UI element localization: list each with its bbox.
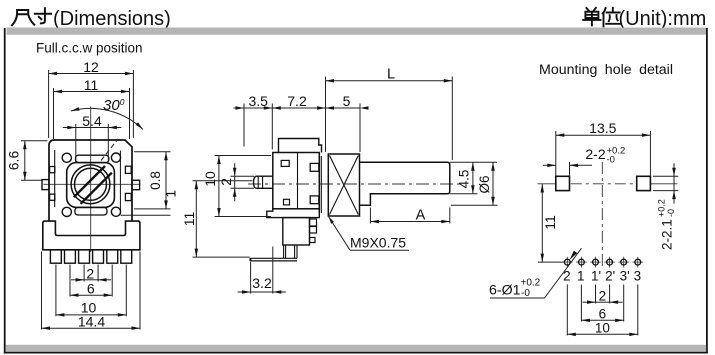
side mounting plate: [318, 156, 320, 213]
dim 11 side text: [181, 212, 197, 227]
front pins 1-6: [50, 250, 61, 263]
dim 13.5: [556, 134, 651, 136]
front corner hole bottom-left: [62, 207, 71, 216]
label 6-dia1 leader: [545, 248, 582, 298]
svg-text:2-2.1: 2-2.1: [660, 219, 675, 250]
side body: [273, 153, 320, 209]
dim 5.4: [63, 127, 76, 129]
side pilot shaft: [254, 176, 273, 188]
dim 11 mh: [541, 184, 543, 262]
front left mounting lug: [42, 180, 49, 190]
dim 2-2 arrows: [543, 164, 556, 166]
svg-text:M9X0.75: M9X0.75: [350, 235, 406, 251]
dim 2 side: [234, 163, 236, 176]
side clip plate upper: [310, 163, 319, 171]
dim 6 mh: [581, 319, 623, 321]
dim 30deg arc: [71, 108, 143, 129]
svg-text:14.4: 14.4: [78, 314, 105, 330]
svg-text:300: 300: [103, 97, 125, 114]
svg-text:11: 11: [181, 212, 197, 227]
mh square hole left: [556, 176, 570, 190]
dim 12 ext lines: [48, 70, 50, 138]
svg-text:7.2: 7.2: [287, 93, 307, 109]
side top tab: [279, 139, 322, 153]
frame right border: [706, 28, 708, 354]
dim 30deg radial mark: [101, 139, 118, 161]
front knob slot line 1: [74, 166, 105, 197]
svg-text:Full.c.c.w position: Full.c.c.w position: [36, 41, 143, 56]
dim 7.2 arrows: [264, 106, 273, 110]
svg-text:2-2: 2-2: [585, 146, 605, 162]
dim 3.2 ext lines: [250, 262, 252, 294]
svg-text:2: 2: [218, 178, 234, 186]
dim 2 (pins): [71, 279, 84, 281]
dim 0.8: [165, 152, 167, 209]
side lower block: [283, 218, 310, 245]
mh center horizontal line: [538, 183, 556, 185]
svg-text:12: 12: [83, 59, 99, 75]
side threaded bushing: [328, 154, 359, 216]
front collar bottom bar: [75, 207, 107, 215]
dim dia6 ext line: [451, 204, 498, 206]
dim 6.6 text: [6, 151, 22, 171]
dim 10 side ext lines: [215, 155, 272, 157]
dim 6.6 ext lines: [21, 140, 48, 142]
dim 10 side text: [202, 171, 218, 187]
side bushing cross: [330, 156, 359, 215]
side lower block detail b: [310, 227, 317, 234]
svg-text:L: L: [387, 67, 395, 83]
svg-text:6.6: 6.6: [6, 151, 22, 171]
svg-text:1: 1: [164, 190, 179, 198]
mh center vertical line: [601, 162, 603, 266]
svg-text:-0: -0: [666, 209, 676, 217]
dim 3.5/7.2/5 line: [236, 107, 360, 109]
svg-text:11: 11: [542, 215, 558, 230]
dim 11 side: [195, 181, 197, 257]
mh bottom dim ext lines: [595, 285, 597, 304]
front corner hole top-left: [62, 153, 71, 162]
front knob outer circle: [71, 165, 110, 204]
dim 4.5 ext lines: [450, 161, 497, 163]
frame bottom gray bar: [6, 345, 707, 352]
side top dim ext lines: [243, 104, 245, 147]
dim 2 side text: [218, 178, 234, 186]
svg-text:2: 2: [599, 289, 607, 304]
front corner hole bottom-right: [111, 207, 120, 216]
frame bottom border: [4, 352, 708, 354]
dim 3.2: [238, 291, 251, 293]
svg-text:13.5: 13.5: [589, 120, 616, 136]
svg-text:6: 6: [87, 281, 95, 297]
svg-text:Mounting hole detail: Mounting hole detail: [539, 62, 673, 78]
svg-text:6-Ø1: 6-Ø1: [489, 283, 521, 299]
dim 12: [49, 73, 134, 75]
front body clip right upper: [125, 166, 131, 173]
side bracket leg: [294, 245, 296, 258]
front body outline: [49, 140, 132, 221]
front body inner line right: [119, 151, 121, 215]
svg-text:10: 10: [595, 321, 610, 336]
dim 0.8 text: [148, 171, 163, 190]
dim 2-2.1 ext lines: [653, 175, 678, 177]
dim 2-2 ext line: [569, 162, 571, 176]
dim dia6 text: [477, 175, 492, 193]
dim 5.4 ext lines: [75, 124, 77, 162]
dim 0.8/1 ext lines: [134, 151, 171, 153]
side shaft: [360, 162, 450, 205]
dim 2 side ext lines: [231, 175, 255, 177]
frame left border: [4, 28, 6, 354]
dim dia6: [492, 162, 494, 205]
front knob inner circle: [75, 168, 107, 200]
dim 11: [54, 91, 130, 93]
front flange: [43, 221, 140, 250]
svg-text:3.2: 3.2: [252, 275, 272, 291]
front collar square: [67, 163, 115, 208]
mh square hole right: [637, 176, 651, 190]
svg-text:(Unit):mm: (Unit):mm: [619, 8, 707, 30]
dim 14.4: [42, 327, 141, 329]
dim 11 ext lines: [53, 88, 55, 139]
svg-text:-0: -0: [521, 288, 530, 299]
svg-text:2: 2: [86, 265, 94, 281]
dim 11 side ext lines: [193, 180, 253, 182]
side base flange: [267, 209, 320, 218]
dim 2-2.1 text: [657, 199, 677, 250]
svg-text:+0.2: +0.2: [521, 278, 541, 289]
label 6-dia1 underline: [490, 297, 545, 299]
side lower block detail c: [310, 238, 316, 243]
dim 13.5 ext lines: [555, 131, 557, 176]
front corner hole top-right: [111, 153, 120, 162]
label M9X0.75 underline: [350, 249, 409, 251]
dim A ext lines: [369, 208, 371, 224]
dim L: [326, 80, 453, 82]
dim 10 side: [218, 156, 220, 217]
svg-text:Ø6: Ø6: [477, 175, 492, 193]
side clip plate lower: [310, 196, 319, 204]
svg-text:(Dimensions): (Dimensions): [53, 8, 171, 30]
front view horizontal centerline: [44, 183, 141, 185]
svg-text:6: 6: [599, 307, 607, 322]
svg-text:+0.2: +0.2: [657, 199, 667, 217]
svg-text:-0: -0: [607, 155, 615, 166]
side lower block detail a: [310, 219, 317, 226]
svg-text:3.5: 3.5: [248, 93, 268, 109]
front view vertical centerline: [90, 107, 92, 253]
dim 10 (pins): [56, 314, 126, 316]
svg-text:11: 11: [84, 77, 99, 93]
title CJK 单位: [583, 8, 620, 27]
dim 4.5: [472, 162, 474, 194]
dim 2 mh: [583, 301, 596, 303]
svg-text:3: 3: [634, 269, 642, 284]
svg-text:3': 3': [620, 269, 630, 284]
dim L ext line: [451, 77, 453, 161]
title CJK 尺寸: [12, 8, 51, 25]
dim 6.6: [24, 141, 26, 181]
dim 3.5 arrows: [236, 106, 245, 110]
svg-text:0.8: 0.8: [148, 171, 163, 190]
svg-text:10: 10: [202, 171, 218, 187]
side pilot cap lines: [257, 176, 259, 188]
side pin edge: [283, 245, 285, 258]
dim A: [370, 221, 449, 223]
front collar top bar: [76, 155, 109, 162]
svg-text:5.4: 5.4: [82, 113, 102, 129]
dim 30deg arc arrow left: [71, 107, 80, 111]
dim 11 mh text: [542, 215, 558, 230]
front body clip left lower: [50, 194, 55, 200]
dim 5 arrows: [317, 106, 326, 110]
side body inner line: [297, 153, 299, 209]
svg-text:A: A: [416, 208, 426, 224]
svg-text:1: 1: [577, 269, 585, 284]
svg-text:2': 2': [605, 269, 615, 284]
side body bump upper: [281, 160, 289, 166]
frame top gray bar: [7, 28, 708, 35]
svg-text:5: 5: [343, 93, 351, 109]
dim 10 mh: [567, 333, 638, 335]
dim 2-2.1: [673, 163, 675, 176]
front knob slot line 2: [81, 173, 112, 204]
mh pin holes row: [562, 261, 573, 263]
svg-text:1': 1': [591, 269, 601, 284]
dim 30deg arc arrow right: [136, 122, 143, 129]
front pin dim ext lines: [83, 265, 85, 282]
svg-text:4.5: 4.5: [456, 170, 471, 189]
dim 4.5 text: [456, 170, 471, 189]
side body bump lower: [284, 199, 290, 205]
front body inner line left: [54, 150, 56, 207]
side axis centerline: [248, 183, 462, 185]
front body clip right lower: [125, 193, 131, 200]
side bracket foot: [250, 258, 297, 261]
dim 6 (pins): [70, 294, 112, 296]
front body clip left upper: [50, 167, 55, 173]
dim 1 text: [164, 190, 179, 198]
front right mounting lug: [132, 180, 140, 190]
dim 11 mh ext line: [538, 261, 564, 263]
label M9X0.75 leader: [329, 217, 351, 251]
